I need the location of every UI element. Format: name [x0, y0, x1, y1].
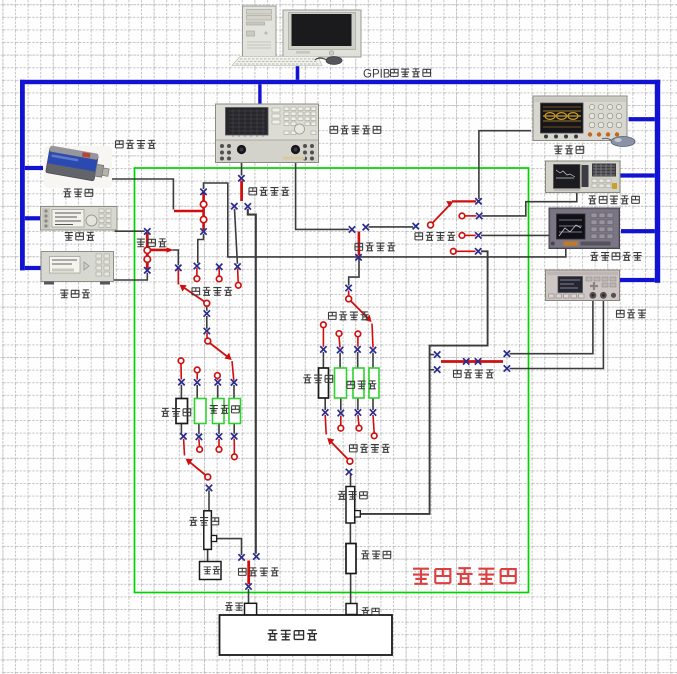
switch SR pivot and ports — [428, 222, 434, 228]
signal source 2 — [41, 252, 114, 285]
bank2 bottom open circles — [338, 425, 344, 431]
isolator bank2 branch3 — [353, 368, 364, 398]
bank1 bottom stubs — [183, 439, 186, 456]
bank1 top pivot — [205, 338, 211, 344]
arrow bank1 bottom arm — [186, 459, 193, 466]
bank1 bottom pivot — [205, 474, 211, 480]
bank2 top stubs — [322, 328, 324, 347]
label 信号源 2 — [60, 290, 90, 298]
label 噪声源 — [63, 189, 92, 197]
wire S-low pivot to bank1 switch — [206, 306, 208, 329]
wire NA port1 down — [241, 154, 243, 176]
label 同轴开关 S3 — [355, 243, 395, 251]
power meter — [546, 270, 620, 301]
bank1 branch 1 leads — [180, 385, 182, 434]
wire SR port to noise figure analyzer — [481, 234, 550, 236]
wire SR port down to coupler tab — [361, 251, 488, 514]
coupler 1 — [204, 511, 212, 550]
label 同轴开关 S2 — [249, 187, 289, 195]
wire into coupler1 — [208, 490, 210, 510]
GPIB bus left trunk — [20, 80, 25, 271]
DUT output connector — [346, 604, 357, 615]
label 信号控制箱 (red) — [413, 568, 516, 584]
coupler 2 — [346, 487, 355, 524]
bank1 branch 3 leads — [218, 385, 219, 434]
bank1 top open circles — [178, 358, 184, 364]
label 被测设备 — [268, 630, 317, 640]
noise source — [44, 145, 112, 188]
wire attenuator to DUT output — [350, 574, 352, 604]
switch S-low arm diagonal — [181, 286, 207, 303]
signal source 1 — [41, 207, 118, 231]
load box — [200, 562, 222, 580]
oscilloscope — [533, 96, 627, 141]
wire S3 top right to switch SR — [369, 226, 414, 228]
svg-text:GPIB: GPIB — [363, 69, 391, 81]
signal control box (green rectangle) — [135, 168, 529, 593]
label 合路器 — [137, 239, 167, 247]
label 示波器 — [554, 146, 583, 154]
filter bank1 branch2 — [195, 399, 207, 424]
switch S4 arm (bank2 top) — [349, 299, 370, 320]
wire S1 top to long run to noise figure analyzer — [204, 183, 566, 257]
wire coupler1 tab to input switch — [217, 539, 242, 555]
combiner pivot rings — [144, 247, 150, 253]
bank1 bottom switch arm — [187, 460, 207, 477]
label 衰减器 bank2 — [303, 375, 332, 383]
switch SR red stubs — [465, 215, 477, 217]
label 网络分析仪 — [330, 126, 381, 134]
spare stubs — [196, 268, 198, 276]
RED switch elements — [145, 181, 504, 585]
bank1 bottom open circles — [197, 447, 203, 453]
GPIB bus right trunk — [655, 80, 660, 283]
label 耦合器 left — [189, 517, 218, 525]
attenuator bottom — [346, 544, 356, 574]
stub below S-low to bank1 pivot — [206, 333, 208, 339]
bus stub to signal source 1 — [25, 216, 44, 220]
label 噪声分析仪 — [590, 252, 641, 260]
wire coupler1 to load — [207, 550, 209, 562]
computer tower — [243, 6, 277, 58]
label 滤波器 — [210, 405, 239, 413]
bank2 bottom switch arm (S5) — [329, 440, 350, 461]
red terminal circles — [144, 201, 465, 480]
label 耦合器 right — [338, 491, 367, 499]
switch SR arm diagonal — [431, 204, 451, 225]
isolator bank2 branch4 — [369, 368, 379, 398]
switch S3 arm — [358, 232, 361, 256]
bus drop from computer — [296, 66, 300, 80]
label 同轴开关 bank2 top — [328, 312, 368, 320]
combiner switch arm — [146, 233, 149, 269]
label 同轴开关 S-low — [192, 287, 232, 295]
label 同轴开关 transfer — [453, 370, 493, 378]
label 功率计 — [616, 310, 645, 318]
label GPIB控制总线 — [363, 69, 431, 81]
bank2 top open circles — [321, 322, 327, 328]
WIRES (dark) — [110, 131, 603, 604]
GPIB bus horizontal — [20, 80, 660, 84]
S1 pivot rings — [200, 201, 206, 207]
label 同轴开关 input — [238, 568, 278, 576]
wire S2 right terminal long vertical run — [248, 209, 256, 554]
switch S2 arm — [240, 181, 243, 202]
computer monitor — [283, 10, 361, 57]
attenuator bank2 branch1 — [319, 368, 329, 398]
label 负载 — [204, 567, 220, 574]
bank2 pivots — [346, 296, 352, 302]
arrow S-low arm — [180, 285, 187, 292]
wire combiner to signal source 2 — [111, 273, 148, 280]
switch S1 arm — [174, 210, 204, 213]
spare port circles — [194, 276, 200, 282]
filter bank1 branch3 — [213, 399, 225, 424]
bus stub to signal source 2 — [25, 266, 43, 270]
S-low pivot — [204, 300, 210, 306]
stub above S4 — [348, 291, 350, 297]
wire SR port to spectrum analyzer — [482, 193, 577, 216]
wire scope to X node — [479, 131, 531, 199]
wire S2 left terminal slant down — [235, 209, 238, 264]
wire coupler2 to attenuator — [349, 523, 351, 543]
wire S5 to coupler2 — [350, 474, 352, 486]
bus drop to network analyzer — [258, 84, 261, 104]
bus stub to oscilloscope — [629, 117, 655, 121]
mouse next to oscilloscope — [602, 137, 635, 147]
bank1 branch 2 leads — [197, 385, 199, 434]
label 隔离器 — [347, 381, 376, 389]
bank2 bottom stubs — [340, 416, 342, 426]
bank1 top switch arm — [209, 342, 230, 359]
network analyzer — [216, 104, 319, 163]
arrow bank2 bottom arm — [327, 438, 334, 445]
bank1 branch 4 leads — [233, 385, 235, 434]
isolator bank2 branch2 — [335, 368, 347, 398]
arrow bank2 top arm — [364, 315, 371, 322]
arrow combiner arm — [167, 247, 174, 252]
filter bank1 branch4 — [229, 399, 241, 424]
DUT box — [220, 615, 393, 655]
bank2 branch 4 leads — [372, 353, 374, 410]
noise figure analyzer — [549, 208, 620, 249]
blue X connector marks — [144, 175, 510, 590]
wire noise source to switch S1 arm — [110, 179, 173, 210]
label 输出 — [362, 608, 379, 616]
bank2 branch 1 leads — [323, 352, 325, 410]
transfer switch red bar — [441, 360, 503, 363]
label 衰减器 bottom — [361, 551, 390, 559]
wire S3 bottom to switch S4 — [349, 258, 359, 286]
spectrum analyzer — [546, 161, 621, 193]
stub to transfer switch top-left — [430, 354, 435, 356]
bank2 branch 2 leads — [339, 353, 342, 411]
wire combiner arm corner down — [173, 250, 179, 265]
DUT input connector — [245, 603, 257, 615]
red stub selected port — [177, 270, 179, 285]
label 输入 — [225, 603, 243, 611]
label 同轴开关 top-left — [115, 140, 155, 148]
computer keyboard — [232, 57, 322, 66]
wire S1 bottom to spare port — [198, 234, 204, 263]
bus stub to spectrum analyzer — [620, 173, 654, 177]
bank2 branch 3 leads — [357, 352, 359, 410]
label 衰减器 bank1 — [161, 408, 190, 416]
wire signal source 1 to combiner — [115, 230, 145, 232]
bus stub to noise source — [25, 166, 43, 170]
attenuator bank1 branch1 — [176, 399, 188, 424]
label 同轴开关 bank2 bottom — [349, 444, 389, 452]
arrow bank1 top arm — [224, 353, 231, 360]
wire input switch to DUT input — [248, 589, 250, 603]
computer mouse — [315, 57, 342, 65]
bank1 top stubs — [180, 364, 182, 380]
label 频谱分析仪 — [588, 196, 639, 204]
bus stub to noise figure analyzer — [621, 229, 655, 233]
wire NA port2 to switch S3 — [296, 154, 350, 229]
bus stub to power meter — [620, 278, 655, 282]
label 信号源 1 — [65, 232, 95, 240]
stub to transfer switch bottom-left — [430, 369, 435, 371]
input switch arm — [247, 561, 250, 585]
arrow SR arm — [446, 201, 453, 207]
label 同轴开关 SR — [415, 232, 455, 240]
wire transfer switch to power meter 2 — [510, 301, 604, 369]
red arrowheads — [167, 201, 454, 466]
wire transfer switch to power meter 1 — [510, 301, 593, 354]
